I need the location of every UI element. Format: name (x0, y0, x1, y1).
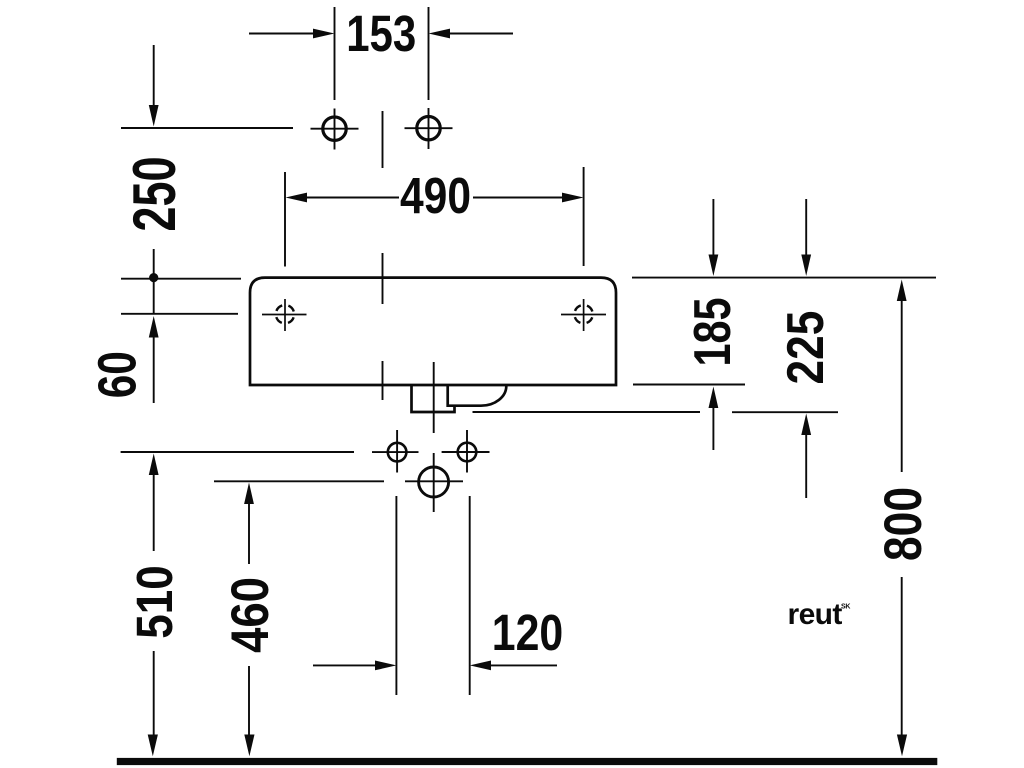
arrow 60 (points up) (149, 316, 159, 338)
arrow 490 right (points right) (562, 193, 584, 203)
faucet hole left (dashed) (262, 299, 307, 331)
svg-text:120: 120 (492, 603, 563, 660)
dim line 153 right (447, 33, 513, 35)
svg-text:60: 60 (88, 351, 148, 398)
dim line 153 left (249, 33, 316, 35)
arrow 490 left (points left) (286, 193, 308, 203)
svg-text:SK: SK (841, 604, 850, 611)
arrow 120 right (points left) (470, 661, 491, 671)
dim 225 down tail (805, 199, 807, 258)
fixing hole bottom left (372, 430, 419, 473)
dim line 120 left (313, 664, 378, 666)
centerline drain vertical (433, 362, 435, 512)
dim 185 up tail (712, 404, 714, 450)
arrow 185 down (709, 255, 719, 277)
arrow 460 up (244, 483, 254, 505)
faucet hole right (dashed) (561, 299, 606, 331)
dim line 120 right (488, 664, 557, 666)
extension line 120 left (395, 496, 397, 695)
svg-text:490: 490 (400, 166, 471, 224)
svg-text:800: 800 (874, 487, 933, 561)
dim 460 upper tail (248, 500, 250, 564)
extension line 120 right (469, 496, 471, 695)
arrow 120 left (points right) (375, 661, 396, 671)
arrow 250 (points down) (149, 105, 159, 127)
svg-text:185: 185 (684, 298, 742, 367)
ref line basin top right (632, 277, 936, 279)
arrow 153 right (points left) (429, 29, 451, 39)
dim 800 lower tail (901, 577, 903, 738)
extension line 153 right (428, 7, 430, 100)
arrowheads (148, 29, 907, 757)
dim 60 tail (153, 334, 155, 403)
dim 185 down tail (712, 199, 714, 258)
mounting hole top right (405, 108, 453, 149)
svg-text:153: 153 (346, 5, 416, 62)
arrow 460 down (244, 735, 254, 757)
dim 460 lower tail (248, 666, 250, 738)
svg-text:225: 225 (777, 311, 835, 385)
dot on 250 line (149, 273, 158, 282)
ref line basin bottom right (633, 384, 745, 386)
ref line drain bottom right part (732, 411, 838, 413)
ref line 460 level (214, 480, 384, 482)
arrow 225 up (801, 414, 811, 436)
ref line hole level left (121, 127, 293, 129)
svg-text:reut: reut (788, 598, 843, 631)
arrow 225 down (801, 255, 811, 277)
arrow 800 down (897, 735, 907, 757)
dim 510 upper tail (153, 471, 155, 551)
extension line 490 left (284, 172, 286, 267)
extension line 490 right (583, 167, 585, 266)
ref line drain bottom (473, 411, 701, 413)
dim line 490 right part (473, 197, 565, 199)
drain tailpiece (412, 385, 455, 412)
ref line faucet level left (121, 313, 238, 315)
arrow 800 up (897, 280, 907, 302)
dim line 490 left part (304, 197, 399, 199)
arrow 510 down (148, 735, 158, 757)
svg-text:510: 510 (127, 565, 184, 638)
centerline basin vertical (382, 111, 384, 400)
dim 800 upper tail (901, 297, 903, 472)
arrow 153 left (points right) (313, 29, 335, 39)
arrow 510 up (149, 454, 159, 476)
dim 510 lower tail (153, 651, 155, 738)
dim 250 tail (153, 45, 155, 108)
ref line 510 level (121, 451, 354, 453)
dim 250 lower segment (153, 249, 155, 314)
fixing hole bottom right (442, 430, 490, 473)
ref line basin top left (121, 278, 241, 280)
mounting hole top left (311, 109, 359, 150)
dim 225 up tail (805, 430, 807, 498)
floor line (117, 758, 938, 765)
svg-text:460: 460 (221, 577, 280, 653)
arrow 185 up (709, 387, 719, 409)
basin outline (250, 278, 616, 385)
drain spout (448, 386, 507, 406)
extension line 153 left (334, 7, 336, 100)
svg-text:250: 250 (122, 156, 189, 231)
drain hole big circle (405, 467, 463, 497)
